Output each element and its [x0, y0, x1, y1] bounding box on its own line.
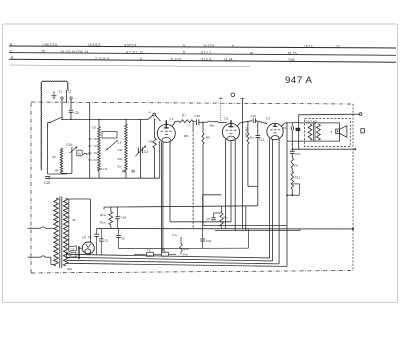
- transformer primary winding: [54, 198, 58, 266]
- tube L1 legs: [159, 141, 161, 178]
- wire T1 down: [61, 99, 63, 119]
- svg-text:R6: R6: [149, 140, 153, 144]
- svg-text:C:m: C:m: [172, 233, 178, 237]
- svg-text:T2: T2: [68, 90, 72, 94]
- parts table row S: [10, 43, 340, 49]
- resistor R11: [247, 121, 249, 133]
- svg-text:h: h: [232, 44, 234, 48]
- svg-text:C2: C2: [105, 239, 109, 243]
- svg-text:10,5,6,5: 10,5,6,5: [88, 43, 100, 47]
- output bottom wire: [292, 148, 354, 150]
- mains lead bottom: [28, 256, 41, 258]
- band switch arm: [48, 122, 50, 124]
- grid coil 2: [125, 124, 127, 171]
- svg-text:R8: R8: [184, 134, 188, 138]
- ground bus y228.8: [97, 228, 353, 230]
- filament bar: [78, 246, 80, 259]
- coil bottoms: [98, 171, 100, 178]
- junction y195: [291, 194, 293, 196]
- inner solid box bottom: [287, 140, 340, 142]
- heater box 2: [66, 252, 76, 258]
- grid lead vertical: [89, 103, 91, 178]
- svg-text:L3: L3: [266, 117, 270, 121]
- AVC bus y178: [48, 177, 160, 179]
- parts table row R: [11, 56, 295, 62]
- svg-text:C1: C1: [88, 235, 92, 239]
- svg-text:50k: 50k: [118, 157, 123, 161]
- resistor R1a R1b: [110, 207, 112, 212]
- speaker magnet: [336, 129, 340, 134]
- dotted lead: [220, 98, 222, 122]
- grid cap L2: [230, 120, 232, 127]
- svg-text:14k: 14k: [118, 148, 123, 152]
- svg-text:5: 5: [183, 44, 185, 48]
- svg-text:71,4,10: 71,4,10: [170, 57, 181, 61]
- resistor R16: [180, 237, 182, 244]
- heater bus 4: [67, 263, 287, 266]
- speaker unit dashed box: [305, 119, 351, 147]
- svg-text:16, 9,6 10,/23h, 14,: 16, 9,6 10,/23h, 14,: [60, 50, 89, 54]
- svg-text:R9: R9: [206, 136, 210, 140]
- osc coil leads: [71, 147, 73, 173]
- svg-text:9h: 9h: [55, 169, 59, 173]
- chassis border bottom: [31, 271, 353, 274]
- output left wire: [298, 115, 300, 149]
- capacitor C6: [118, 229, 120, 236]
- svg-text:T1: T1: [59, 90, 63, 94]
- output transformer core: [312, 123, 314, 142]
- ground symbol: [53, 91, 55, 96]
- coil shield can scalloped outline: [41, 82, 42, 170]
- heater bus 1: [67, 254, 270, 258]
- svg-text:20a: 20a: [67, 267, 72, 271]
- capacitor C8: [69, 109, 73, 111]
- svg-text:R13: R13: [295, 176, 301, 180]
- svg-text:C6: C6: [121, 237, 125, 241]
- wire L1 plate: [172, 121, 176, 126]
- resistor R10: [220, 213, 223, 227]
- tube L3 legs: [269, 139, 271, 258]
- capacitor C20: [45, 176, 50, 178]
- terminal circle: [231, 93, 235, 97]
- svg-text:5m: 5m: [118, 165, 123, 169]
- svg-text:5m: 5m: [89, 158, 94, 162]
- capacitor C18: [117, 206, 119, 216]
- svg-text:C9: C9: [92, 126, 96, 130]
- inner solid box top: [299, 122, 340, 124]
- capacitor C22: [202, 195, 204, 239]
- svg-text:2, 3,15, 5,: 2, 3,15, 5,: [95, 57, 110, 61]
- svg-text:C1b: C1b: [67, 143, 73, 147]
- svg-text:46m: 46m: [210, 124, 215, 128]
- tuning cap C4 riser: [139, 119, 141, 178]
- svg-text:Rn: Rn: [250, 136, 254, 140]
- wire L3 plate: [282, 123, 285, 127]
- chassis border top: [31, 102, 353, 104]
- resistor R7: [179, 120, 193, 123]
- inner solid box right: [339, 123, 341, 141]
- svg-text:74/5: 74/5: [288, 58, 295, 62]
- svg-text:C5: C5: [206, 217, 210, 221]
- switch arm 2: [107, 140, 118, 150]
- svg-text:4,02 5,4: 4,02 5,4: [124, 44, 136, 48]
- svg-text:C19: C19: [295, 152, 301, 156]
- svg-text:L2: L2: [225, 116, 229, 120]
- svg-text:5k.: 5k.: [73, 218, 77, 222]
- svg-text:C4: C4: [144, 150, 148, 154]
- svg-text:8,12, 1,: 8,12, 1,: [201, 51, 212, 55]
- output transformer secondary: [317, 124, 321, 140]
- svg-text:11,14,: 11,14,: [224, 58, 233, 62]
- bypass loop: [292, 183, 299, 185]
- svg-text:81,15,: 81,15,: [288, 51, 297, 55]
- mains lead top: [28, 227, 41, 229]
- svg-text:C13 C12: C13 C12: [97, 167, 108, 171]
- svg-text:R1a: R1a: [100, 213, 106, 217]
- svg-text:3F: 3F: [89, 137, 93, 141]
- svg-text:C18: C18: [121, 215, 127, 219]
- series cap D1: [291, 123, 293, 126]
- output top wire: [298, 113, 359, 116]
- anode lead: [89, 199, 91, 242]
- screen bus y206: [104, 206, 258, 207]
- svg-text:5,6: 5,6: [118, 141, 122, 145]
- svg-text:C12: C12: [259, 138, 265, 142]
- svg-text:7a: 7a: [78, 152, 82, 156]
- choke to L2 grid: [199, 121, 208, 123]
- wire C11 to L3: [256, 121, 268, 124]
- bus y225.5: [203, 225, 287, 227]
- anode box top: [69, 198, 91, 200]
- speaker cone: [340, 126, 347, 138]
- chassis border right: [352, 104, 354, 271]
- coil taps: [94, 138, 98, 140]
- anode box left: [68, 199, 70, 247]
- capacitor C12: [257, 122, 259, 136]
- svg-text:6,: 6,: [140, 57, 143, 61]
- terminal square: [361, 129, 365, 133]
- grid top wire: [62, 118, 148, 120]
- capacitor C10: [193, 120, 196, 122]
- heater bus 2: [67, 257, 273, 261]
- screen feed wire: [241, 98, 245, 100]
- osc coil: [60, 148, 62, 173]
- svg-text:L1: L1: [170, 117, 174, 121]
- coupling coil: [83, 154, 89, 155]
- svg-text:D1: D1: [283, 126, 287, 130]
- svg-text:1,56,2,5,6: 1,56,2,5,6: [42, 43, 57, 47]
- svg-text:17: 17: [336, 45, 340, 49]
- bus y230.5: [215, 230, 300, 232]
- svg-text:C8: C8: [75, 111, 79, 115]
- tube L2 legs: [225, 140, 227, 229]
- jog to bus: [248, 185, 258, 187]
- switch contact box: [102, 132, 117, 139]
- svg-text:C5b 16n: C5b 16n: [245, 127, 248, 137]
- svg-text:19,16,: 19,16,: [304, 45, 313, 49]
- svg-text:75: 75: [41, 50, 45, 54]
- svg-text:50: 50: [53, 155, 57, 159]
- bus y221.8: [170, 221, 231, 223]
- svg-text:C10: C10: [195, 114, 201, 118]
- heater box 1: [68, 246, 77, 252]
- resistor Rn: [291, 153, 293, 158]
- grid cap L1: [165, 120, 167, 128]
- svg-text:4,2, 6 1, 12,: 4,2, 6 1, 12,: [126, 50, 144, 54]
- resistor R6: [154, 119, 156, 138]
- transformer core: [59, 197, 61, 269]
- coil tops: [98, 119, 100, 126]
- padder box: [77, 150, 82, 156]
- wire x245.8: [245, 206, 247, 231]
- resistor R8: [192, 121, 194, 130]
- svg-text:9,10, 4,: 9,10, 4,: [201, 58, 212, 62]
- svg-text:5: 5: [183, 51, 185, 55]
- svg-text:C11: C11: [251, 114, 257, 118]
- capacitor C19: [291, 149, 293, 151]
- svg-text:Rn: Rn: [295, 163, 299, 167]
- stub y194.8: [203, 194, 222, 196]
- wire shield lead: [47, 123, 49, 175]
- capacitor C5: [221, 206, 223, 213]
- variable capacitor C4: [137, 148, 139, 154]
- bus hooks left: [66, 252, 68, 255]
- capacitor C11: [252, 118, 254, 123]
- grid coil 1: [98, 127, 100, 172]
- svg-text:10,22 6: 10,22 6: [203, 44, 214, 48]
- svg-text:R16: R16: [183, 247, 189, 251]
- resistor R13: [291, 172, 294, 190]
- svg-text:m: m: [250, 51, 253, 55]
- resistor R9: [202, 122, 203, 123]
- rect cathode: [87, 253, 89, 256]
- output transformer primary: [308, 124, 312, 140]
- wire y248: [119, 247, 249, 249]
- svg-text:947 A: 947 A: [285, 75, 313, 86]
- svg-text:R1b: R1b: [100, 220, 106, 224]
- parts table rules: [9, 46, 396, 48]
- terminal aB: [148, 115, 153, 119]
- parts table row C: [10, 49, 297, 55]
- filter cap C2: [100, 229, 102, 239]
- plate branch wire x287: [286, 123, 288, 267]
- filter cap C1: [96, 229, 98, 235]
- chassis border left: [30, 103, 32, 273]
- wire T2 down: [70, 99, 72, 109]
- svg-text:R7: R7: [182, 114, 186, 118]
- caps at coil feet: [122, 170, 124, 173]
- svg-text:C20: C20: [44, 181, 50, 185]
- svg-text:C22: C22: [206, 239, 212, 243]
- transformer secondary winding: [64, 198, 68, 266]
- wire L2 plate to C11: [238, 123, 240, 126]
- heater bus 3: [67, 260, 279, 264]
- capacitor blob: [296, 128, 301, 131]
- svg-text:L9: L9: [82, 235, 86, 239]
